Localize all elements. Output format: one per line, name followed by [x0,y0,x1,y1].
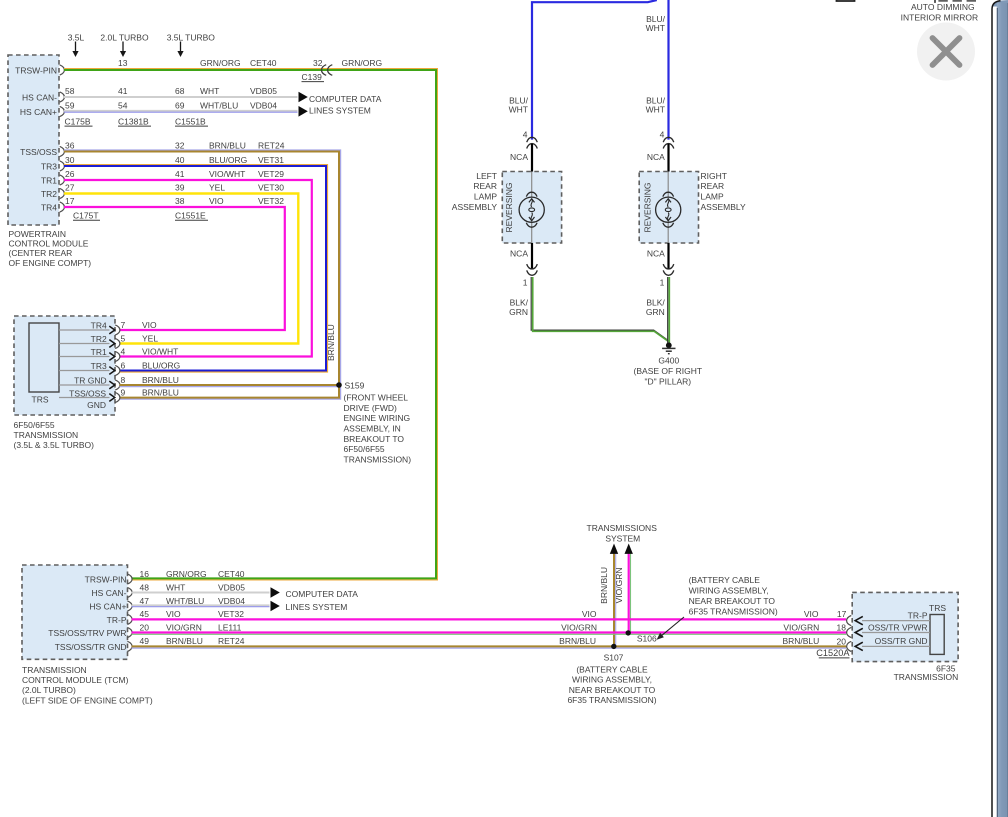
svg-text:REAR: REAR [473,181,497,191]
svg-text:4: 4 [660,130,665,140]
caption RIGHT REAR LAMP ASSEMBLY [701,171,747,212]
svg-text:TRANSMISSION): TRANSMISSION) [344,454,412,464]
svg-text:"D" PILLAR): "D" PILLAR) [644,376,691,386]
svg-text:26: 26 [65,169,75,179]
svg-text:3.5L: 3.5L [68,32,85,42]
PCM pin bracket TR3 [60,161,65,171]
6F50 pin bracket 4 [115,351,120,361]
wire BLK/GRN left lamp to ground (dark) [531,277,668,340]
svg-text:VIO/GRN: VIO/GRN [614,567,624,603]
svg-text:TRS: TRS [32,395,49,405]
svg-text:32: 32 [175,141,185,151]
note COMPUTER DATA LINES SYSTEM bottom [286,589,359,612]
arrow computer data bottom 1 [271,587,280,598]
svg-text:OSS/TR GND: OSS/TR GND [875,636,928,646]
label BLK/GRN left [509,298,529,317]
svg-text:1: 1 [660,278,665,288]
6F35 internal arrow OSS/TR VPWR [855,628,863,636]
auto dimming mirror dashed box bottom [938,0,977,2]
svg-text:VIO/GRN: VIO/GRN [166,622,202,632]
6F50 internal arrow pin 8 [109,381,115,389]
svg-text:CET40: CET40 [250,58,277,68]
note S159 battery cable [344,393,412,465]
6F35 internal wire OSS/TR GND [862,645,930,647]
lamp left internal wire bottom [531,222,533,243]
cut-off module bottom edge [837,0,855,1]
6F50 internal arrow pin 9 [109,394,115,402]
svg-text:VET29: VET29 [258,169,284,179]
svg-text:ENGINE WIRING: ENGINE WIRING [344,413,411,423]
label BLU/WHT top right [646,14,666,33]
svg-text:16: 16 [140,569,150,579]
wire BRN/BLU pin8 to S159 [120,384,340,386]
svg-text:40: 40 [175,155,185,165]
svg-text:WIRING ASSEMBLY,: WIRING ASSEMBLY, [572,675,652,685]
ground G400 symbol [662,348,675,353]
svg-text:INTERIOR MIRROR: INTERIOR MIRROR [901,13,978,23]
svg-text:TR-P: TR-P [107,615,127,625]
svg-text:C1520A: C1520A [816,648,850,658]
svg-text:69: 69 [175,101,185,111]
svg-text:BLU/ORG: BLU/ORG [209,155,247,165]
svg-text:38: 38 [175,196,185,206]
labels HS CAN+ row [65,101,277,111]
svg-text:YEL: YEL [209,183,225,193]
TCM pin bracket HS CAN- [127,587,132,597]
svg-text:BRN/BLU: BRN/BLU [142,388,179,398]
labels TR4 row [65,196,284,206]
6F50 caption [14,420,95,450]
svg-text:OF ENGINE COMPT): OF ENGINE COMPT) [9,258,92,268]
6F50 internal wire to pin 8 [59,384,110,386]
wire BLU/WHT from mirror to left lamp [532,0,657,140]
note TRANSMISSIONS SYSTEM [587,523,658,543]
TCM pin bracket TR-P [127,614,132,624]
6F50 internal wire to pin 9 [59,397,110,399]
svg-text:VDB05: VDB05 [250,86,277,96]
svg-text:REAR: REAR [701,181,725,191]
note S107 battery cable [567,664,656,705]
note base of right D pillar [634,366,702,386]
wire BRN/BLU main TSS/OSS/TR GND [132,645,847,647]
window edge background [0,0,1,1]
svg-text:OSS/TR VPWR: OSS/TR VPWR [868,622,928,632]
labels TCM row pin 16 [140,569,245,579]
labels TSS/OSS row [65,141,285,151]
svg-text:HS CAN+: HS CAN+ [20,107,57,117]
labels TR1 row [65,169,284,179]
wire BLK left lamp top [531,144,533,172]
svg-text:VIO/GRN: VIO/GRN [783,623,819,633]
svg-text:TSS/OSS: TSS/OSS [20,147,57,157]
arrow under 3.5L TURBO [180,42,182,52]
wire WHT TCM HS CAN- [132,592,270,594]
svg-text:6F50/6F55: 6F50/6F55 [14,420,55,430]
svg-text:(BASE OF RIGHT: (BASE OF RIGHT [634,366,702,376]
lamp left terminal hook top [526,192,537,196]
TCM pin bracket TSS/OSS/TRV PWR [127,627,132,637]
svg-text:VIO/WHT: VIO/WHT [209,169,245,179]
splice S106 junction dot [626,630,631,635]
svg-text:VET31: VET31 [258,155,284,165]
labels HS CAN- row [65,86,277,96]
svg-text:VIO: VIO [209,196,224,206]
PCM caption [9,229,92,268]
svg-text:REVERSING: REVERSING [643,182,653,232]
svg-text:(LEFT SIDE OF ENGINE COMPT): (LEFT SIDE OF ENGINE COMPT) [22,695,153,705]
lamp right internal wire top [667,172,669,198]
svg-text:7: 7 [121,320,126,330]
splice S159 junction dot [336,382,342,388]
svg-text:(2.0L TURBO): (2.0L TURBO) [22,685,76,695]
svg-text:HS CAN-: HS CAN- [92,588,127,598]
label BLU/WHT right lamp [646,96,666,115]
svg-text:C139: C139 [302,72,323,82]
svg-text:POWERTRAIN: POWERTRAIN [9,229,66,239]
svg-text:TSS/OSS/TR GND: TSS/OSS/TR GND [55,642,127,652]
wire VIO/GRN main TSS/OSS/TRV PWR [132,631,847,633]
svg-text:TRSW-PIN: TRSW-PIN [85,574,127,584]
svg-text:68: 68 [175,86,185,96]
wire VIO TR4 [64,207,285,330]
wire BLK/GRN left lamp to ground (green) [533,277,669,341]
label BLU/WHT left lamp [509,96,529,115]
svg-text:17: 17 [65,196,75,206]
wire BRN/BLU branch up arrow [610,544,618,647]
svg-text:48: 48 [140,582,150,592]
wire BLK/GRN right lamp to ground (dark) [667,277,669,344]
svg-text:VET30: VET30 [258,183,284,193]
svg-text:GRN/ORG: GRN/ORG [166,569,207,579]
svg-text:VIO: VIO [142,320,157,330]
svg-text:WHT: WHT [509,105,528,115]
svg-text:LAMP: LAMP [701,192,724,202]
svg-text:CONTROL MODULE: CONTROL MODULE [9,239,89,249]
svg-text:VIO/WHT: VIO/WHT [142,347,178,357]
svg-text:REVERSING: REVERSING [504,182,514,232]
svg-text:6F35 TRANSMISSION): 6F35 TRANSMISSION) [567,695,656,705]
svg-text:WHT/BLU: WHT/BLU [166,596,204,606]
wire GRN/ORG stripe (orange) PCM TRSW-PIN to TCM [64,69,437,580]
svg-text:BLU/ORG: BLU/ORG [142,361,180,371]
label BLK/GRN right [646,298,666,317]
PCM pin bracket TR4 [60,202,65,212]
lamp right terminal hook bottom [663,223,674,227]
6F50 pin bracket 8 [115,380,120,390]
6F50 internal wire to pin 4 [59,356,110,358]
wire BRN/BLU main TSS/OSS [64,152,339,398]
wire VIO/WHT TR1 [64,180,312,357]
lamp left internal wire top [531,172,533,198]
lamp left filament [531,199,533,220]
svg-text:VDB04: VDB04 [250,101,277,111]
label AUTO DIMMING INTERIOR MIRROR [901,2,978,23]
svg-text:TR2: TR2 [41,189,57,199]
svg-text:RET24: RET24 [218,636,245,646]
TCM caption [22,665,153,706]
wire BLU/ORG stripe TR3 [64,165,328,372]
arrow under 3.5L [75,42,77,52]
svg-text:9: 9 [121,388,126,398]
svg-text:6F50/6F55: 6F50/6F55 [344,444,385,454]
PCM pin bracket HS CAN- [60,92,65,102]
inline connector right lamp top [663,137,674,148]
wire VIO/GRN stripe [132,633,847,635]
ground junction dot [666,342,672,348]
6F35 internal arrow OSS/TR GND [855,642,863,650]
wire WHT/BLU TCM HS CAN+ stripe [132,606,270,608]
svg-text:6: 6 [121,361,126,371]
6F35 pin bracket OSS/TR VPWR [847,627,852,637]
TCM pin bracket HS CAN+ [127,601,132,611]
svg-text:WHT: WHT [166,582,185,592]
svg-text:LE111: LE111 [218,622,242,632]
svg-text:RET24: RET24 [258,141,285,151]
svg-text:BRN/BLU: BRN/BLU [559,636,596,646]
splice S107 junction dot [611,644,616,649]
svg-text:TRANSMISSION: TRANSMISSION [22,665,87,675]
svg-text:NCA: NCA [647,152,665,162]
inline connector right lamp bottom [663,264,674,275]
svg-text:TSS/OSS/TRV PWR: TSS/OSS/TRV PWR [48,628,126,638]
svg-text:LAMP: LAMP [474,192,497,202]
svg-text:WHT: WHT [646,105,665,115]
svg-text:CONTROL MODULE (TCM): CONTROL MODULE (TCM) [22,675,129,685]
svg-text:VDB04: VDB04 [218,596,245,606]
labels TCM row pin 20 [140,622,242,632]
svg-text:LINES SYSTEM: LINES SYSTEM [286,602,348,612]
svg-text:BRN/BLU: BRN/BLU [166,636,203,646]
svg-text:4: 4 [121,347,126,357]
svg-text:20: 20 [140,622,150,632]
svg-text:58: 58 [65,86,75,96]
svg-text:1: 1 [523,278,528,288]
svg-text:NCA: NCA [510,249,528,259]
svg-text:VIO/GRN: VIO/GRN [561,623,597,633]
svg-text:VIO: VIO [582,609,597,619]
wire BLK right lamp bottom [667,243,669,269]
svg-text:17: 17 [837,609,847,619]
note S106 battery cable [689,575,778,616]
6F35 internal wire TR-P [862,620,930,622]
svg-text:AUTO DIMMING: AUTO DIMMING [911,2,975,12]
inline connector left lamp top [527,137,538,148]
lamp right arrow up [665,199,671,203]
wire BRN/BLU stripe TSS/OSS [64,150,341,399]
svg-text:ASSEMBLY: ASSEMBLY [701,202,747,212]
svg-text:S107: S107 [604,652,624,662]
svg-text:BRN/BLU: BRN/BLU [142,375,179,385]
PCM pin bracket TR2 [60,188,65,198]
labels TR2 row [65,183,284,193]
lamp left bulb circle [519,197,544,222]
6F50 internal arrow pin 7 [109,326,115,334]
svg-text:C175T: C175T [73,211,99,221]
wire VIO/GRN branch up arrow [625,544,633,633]
6F50 internal arrow pin 5 [109,340,115,348]
6F35 caption [894,664,959,682]
svg-text:59: 59 [65,101,75,111]
svg-text:ASSEMBLY, IN: ASSEMBLY, IN [344,424,401,434]
svg-text:G400: G400 [658,356,679,366]
svg-text:45: 45 [140,609,150,619]
wire BLK/GRN right lamp to ground (green) [668,277,670,344]
caption LEFT REAR LAMP ASSEMBLY [452,171,498,212]
svg-text:WIRING ASSEMBLY,: WIRING ASSEMBLY, [689,586,769,596]
svg-text:GRN/ORG: GRN/ORG [342,58,383,68]
lamp right filament [667,199,669,220]
svg-text:32: 32 [313,58,323,68]
svg-text:TR4: TR4 [91,320,107,330]
svg-text:8: 8 [121,375,126,385]
svg-text:C1551E: C1551E [175,211,206,221]
svg-text:2.0L TURBO: 2.0L TURBO [100,32,149,42]
svg-text:LEFT: LEFT [476,171,497,181]
labels TCM row pin 45 [140,609,245,619]
svg-text:54: 54 [118,101,128,111]
svg-text:27: 27 [65,183,75,193]
svg-text:(FRONT WHEEL: (FRONT WHEEL [344,393,409,403]
svg-text:36: 36 [65,141,75,151]
6F35 internal arrow TR-P [855,616,863,624]
wire labels GRN/ORG row [118,58,382,68]
window edge inner shade line [996,8,998,817]
svg-text:GND: GND [87,400,106,410]
arrow computer data top 2 [299,106,308,117]
svg-text:TR4: TR4 [41,202,57,212]
svg-text:41: 41 [175,169,185,179]
svg-text:TR1: TR1 [41,175,57,185]
PCM pin bracket TR1 [60,175,65,185]
labels TCM row pin 48 [140,582,246,592]
wire GRN/ORG main (green) PCM TRSW-PIN to TCM [64,70,436,578]
svg-text:TR2: TR2 [91,334,107,344]
6F35 pin bracket TR-P [847,616,852,626]
lamp right terminal hook top [663,192,674,196]
svg-text:SYSTEM: SYSTEM [605,533,640,543]
svg-text:ASSEMBLY: ASSEMBLY [452,202,498,212]
wire WHT/BLU TCM HS CAN+ main [132,604,270,606]
svg-text:WHT: WHT [200,86,219,96]
svg-text:LINES SYSTEM: LINES SYSTEM [309,105,371,115]
svg-text:(CENTER REAR: (CENTER REAR [9,248,73,258]
svg-text:TR-P: TR-P [908,610,928,620]
6F50 internal wire to pin 7 [59,329,110,331]
svg-text:VET32: VET32 [258,196,284,206]
wire YEL TR2 [64,194,298,344]
svg-text:BRN/BLU: BRN/BLU [782,636,819,646]
svg-text:TR3: TR3 [91,361,107,371]
leader arrow to S106 [657,617,684,640]
note COMPUTER DATA LINES SYSTEM top [309,94,382,116]
wire VIO TR-P to 6F35 [132,618,847,620]
svg-text:TR GND: TR GND [74,375,107,385]
svg-text:TRSW-PIN: TRSW-PIN [15,65,57,75]
wire WHT/BLU HS CAN+ main [64,110,298,112]
svg-text:YEL: YEL [142,334,158,344]
left lamp assembly box [502,172,561,244]
6F50 pin bracket 9 [115,392,120,402]
svg-text:NEAR BREAKOUT TO: NEAR BREAKOUT TO [569,685,656,695]
svg-text:(BATTERY CABLE: (BATTERY CABLE [576,664,648,674]
svg-text:TRANSMISSIONS: TRANSMISSIONS [587,523,658,533]
wire BLK left lamp bottom [531,243,533,269]
svg-text:C1381B: C1381B [118,117,149,127]
labels TR3 row [65,155,284,165]
lamp right arrow down [665,217,671,221]
wire WHT/BLU HS CAN+ stripe [64,111,298,113]
lamp left arrow down [529,217,535,221]
svg-text:VET32: VET32 [218,609,244,619]
svg-text:TRANSMISSION: TRANSMISSION [14,430,79,440]
svg-text:C175B: C175B [65,117,91,127]
svg-text:C1551B: C1551B [175,117,206,127]
close button [917,23,975,81]
labels TCM row pin 49 [140,636,245,646]
svg-text:(3.5L & 3.5L TURBO): (3.5L & 3.5L TURBO) [14,440,95,450]
module 6F35 transmission box [852,592,958,661]
svg-text:RIGHT: RIGHT [701,171,727,181]
svg-text:TRS: TRS [929,603,946,613]
6F50 pin bracket 7 [115,325,120,335]
svg-text:5: 5 [121,334,126,344]
6F35 internal wire OSS/TR VPWR [862,632,930,634]
module PCM box [8,55,59,225]
svg-text:BRN/BLU: BRN/BLU [326,324,336,361]
svg-text:3.5L TURBO: 3.5L TURBO [167,32,216,42]
svg-text:39: 39 [175,183,185,193]
svg-text:NEAR BREAKOUT TO: NEAR BREAKOUT TO [689,596,776,606]
TRS sensor inner rect right [930,615,944,655]
svg-text:TSS/OSS: TSS/OSS [69,389,106,399]
connector C139 inline symbol [322,65,333,76]
svg-text:20: 20 [837,637,847,647]
6F50 internal arrow pin 6 [109,367,115,375]
wire BLU/ORG main TR3 [64,166,326,371]
arrow under 2.0L TURBO [122,42,124,52]
svg-text:S106: S106 [637,634,657,644]
svg-text:30: 30 [65,155,75,165]
PCM pin bracket TSS/OSS [60,146,65,156]
svg-text:WHT: WHT [646,23,665,33]
svg-text:49: 49 [140,636,150,646]
svg-text:S159: S159 [345,380,365,390]
6F50 internal wire to pin 5 [59,343,110,345]
6F50 pin label TSS/OSS GND [69,389,106,411]
svg-text:VIO: VIO [804,609,819,619]
lamp right internal wire bottom [667,222,669,243]
svg-text:NCA: NCA [510,152,528,162]
svg-text:13: 13 [118,58,128,68]
PCM pin bracket HS CAN+ [60,106,65,116]
svg-text:GRN/ORG: GRN/ORG [200,58,241,68]
svg-text:18: 18 [837,623,847,633]
right lamp assembly box [639,172,698,244]
mirror wire stub [934,0,936,3]
6F50 internal wire to pin 6 [59,370,110,372]
module 6F50/6F55 transmission box [14,316,115,415]
inline connector left lamp bottom [527,264,538,275]
wire BLK right lamp top [667,144,669,172]
TCM pin bracket TRSW-PIN [127,574,132,584]
TRS sensor inner rect [29,323,59,392]
svg-text:HS CAN+: HS CAN+ [89,601,126,611]
svg-text:47: 47 [140,596,150,606]
svg-text:BREAKOUT TO: BREAKOUT TO [344,434,405,444]
PCM pin bracket TRSW-PIN [60,65,65,75]
arrow computer data top 1 [299,92,308,103]
svg-text:COMPUTER DATA: COMPUTER DATA [286,589,359,599]
